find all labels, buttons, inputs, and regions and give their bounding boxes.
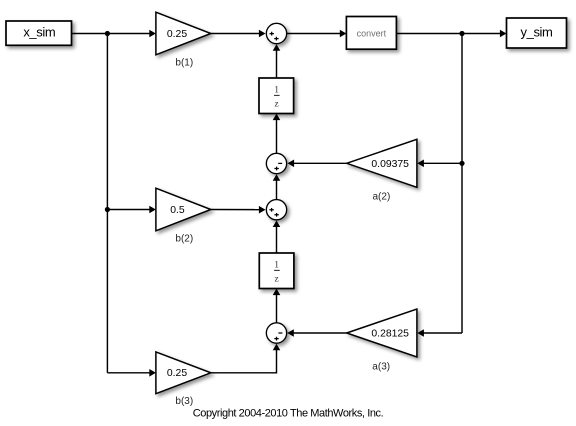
unit delay 1/z lower — [259, 253, 294, 289]
wire b(1) to sum S1 — [211, 30, 266, 38]
unit delay 1/z upper — [259, 78, 294, 114]
wire a(3) to sum S4 — [287, 329, 347, 337]
inport block x_sim — [6, 21, 72, 45]
sum S4 (minus right, plus bottom) — [266, 323, 286, 343]
svg-text:b(3): b(3) — [175, 396, 193, 407]
svg-text:y_sim: y_sim — [521, 24, 553, 39]
svg-text:0.25: 0.25 — [167, 29, 187, 40]
svg-text:x_sim: x_sim — [23, 24, 55, 39]
wire right trunk corner to a(3) — [417, 329, 462, 337]
data type conversion block convert — [346, 17, 396, 50]
wire left trunk to b(2) — [107, 206, 155, 214]
outport block y_sim — [507, 18, 567, 48]
junction node on x_sim wire — [105, 31, 110, 36]
junction node on right trunk — [459, 161, 464, 166]
wire right vertical trunk — [461, 34, 463, 334]
svg-text:0.09375: 0.09375 — [371, 159, 409, 170]
svg-text:Copyright 2004-2010 The MathWo: Copyright 2004-2010 The MathWorks, Inc. — [193, 408, 384, 420]
junction node on left trunk — [105, 207, 110, 212]
wire 1/z lower to sum S3 — [273, 220, 281, 253]
svg-text:1: 1 — [274, 260, 279, 270]
wire sum S1 to convert — [287, 30, 347, 38]
wire left trunk corner to b(3) — [107, 369, 155, 377]
svg-text:b(1): b(1) — [175, 58, 193, 69]
wire sum S2 to 1/z upper — [273, 114, 281, 154]
svg-text:a(2): a(2) — [373, 192, 391, 203]
svg-text:b(2): b(2) — [175, 234, 193, 245]
svg-text:0.28125: 0.28125 — [371, 329, 409, 340]
gain a(3) — [347, 309, 417, 357]
wire sum S4 to 1/z lower — [273, 289, 281, 323]
svg-text:z: z — [274, 99, 278, 109]
svg-text:z: z — [274, 274, 278, 284]
wire left vertical trunk — [106, 34, 108, 373]
wire x_sim to b(1) — [72, 30, 156, 38]
wire convert to y_sim — [396, 30, 506, 38]
wire b(3) to sum S4 — [211, 344, 280, 373]
wire b(2) to sum S3 — [211, 206, 266, 214]
svg-text:convert: convert — [357, 28, 387, 38]
gain b(3) — [156, 352, 211, 394]
gain a(2) — [347, 139, 417, 187]
wire sum S3 to sum S2 — [273, 174, 281, 199]
wire 1/z upper to sum S1 — [273, 44, 281, 78]
sum S3 (plus left, plus bottom) — [266, 200, 286, 220]
svg-text:1: 1 — [274, 85, 279, 95]
wire a(2) to sum S2 — [288, 160, 347, 168]
svg-text:a(3): a(3) — [372, 362, 390, 373]
gain b(2) — [156, 188, 211, 231]
svg-text:0.25: 0.25 — [167, 368, 187, 379]
wire right trunk to a(2) — [417, 160, 462, 168]
sum S1 — [266, 23, 286, 43]
junction node on y_sim wire — [459, 31, 464, 36]
svg-text:0.5: 0.5 — [170, 205, 185, 216]
sum S2 (minus right, plus bottom) — [266, 153, 286, 173]
gain b(1) — [156, 12, 211, 55]
